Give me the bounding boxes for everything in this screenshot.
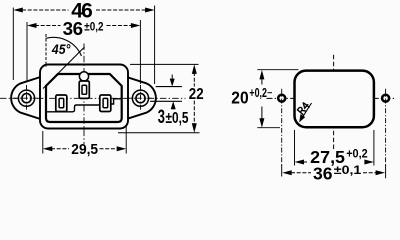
recess floor step line bbox=[47, 105, 100, 112]
45deg construction vertical line bbox=[45, 34, 47, 67]
right panel hole bbox=[382, 95, 389, 102]
recess step line right of N pin bbox=[111, 99, 121, 104]
dimension 20 leader dash bbox=[268, 92, 273, 94]
svg-text:20: 20 bbox=[231, 88, 249, 108]
dimension 3 down arrow bbox=[171, 75, 173, 80]
left panel hole bbox=[278, 95, 285, 102]
dimension 46 extension line right bbox=[154, 6, 156, 85]
svg-text:29,5: 29,5 bbox=[71, 142, 98, 158]
svg-text:22: 22 bbox=[189, 86, 204, 103]
dimension 46 extension line left bbox=[12, 8, 14, 81]
dimension 29,5 left arrow bbox=[43, 146, 53, 151]
R4 leader arrow bbox=[302, 103, 312, 119]
right mounting hole bbox=[136, 94, 145, 103]
flange body outline bbox=[40, 65, 128, 129]
line pin slot bbox=[59, 98, 64, 107]
earth pin body bbox=[79, 81, 89, 98]
left hole crosshair bbox=[13, 85, 40, 112]
dimension 29,5 line bbox=[51, 148, 118, 150]
dimension 3 upper reference line bbox=[156, 86, 182, 88]
horizontal centerline left view bbox=[0, 97, 186, 99]
svg-text:3: 3 bbox=[158, 106, 165, 128]
svg-text:+0,2: +0,2 bbox=[249, 86, 267, 100]
left panel hole vertical extension bbox=[281, 89, 283, 164]
dimension 46 left arrow bbox=[13, 8, 22, 13]
dimension 27,5 right arrow bbox=[364, 160, 374, 165]
dimension 3 lower reference line bbox=[150, 100, 182, 102]
right hole crosshair bbox=[127, 85, 154, 112]
dimension 27,5 left arrow bbox=[295, 160, 305, 165]
vertical centerline left view bbox=[83, 44, 85, 145]
dimension 29,5 extension line left bbox=[42, 131, 44, 154]
dimension 22 line bbox=[193, 72, 195, 126]
left mounting ear bbox=[11, 77, 42, 120]
svg-text:±0,2: ±0,2 bbox=[84, 20, 103, 34]
dimension 20 line bbox=[261, 78, 263, 120]
dimension 20 top arrow bbox=[259, 70, 264, 80]
dimension 20 bottom extension line bbox=[257, 127, 280, 129]
svg-text:±0,1: ±0,1 bbox=[334, 163, 362, 177]
dimension 27,5 extension line right bbox=[373, 130, 375, 166]
dimension 36 extension line left bbox=[26, 22, 28, 82]
right mounting ear bbox=[125, 77, 156, 120]
dimension 22 top extension line bbox=[130, 63, 199, 65]
dimension 36 extension line right bbox=[139, 20, 141, 84]
dimension 22 top arrow bbox=[192, 64, 197, 74]
dimension 20 bottom arrow bbox=[259, 118, 264, 128]
dimension 27,5 extension line left bbox=[294, 130, 296, 166]
right mounting hole outer circle bbox=[132, 90, 148, 106]
dimension 36 left arrow bbox=[27, 23, 37, 28]
svg-text:+0,2: +0,2 bbox=[346, 147, 368, 161]
dimension 46 right arrow bbox=[145, 8, 155, 13]
right panel hole vertical extension bbox=[385, 89, 387, 164]
recess outline with 45deg chamfered top corners bbox=[46, 74, 122, 122]
dimension 36,1 line bbox=[291, 172, 376, 174]
dimension 46 line bbox=[22, 9, 146, 11]
R4 label bbox=[297, 102, 309, 115]
left mounting hole bbox=[22, 94, 31, 103]
dimension 22 bottom extension line bbox=[118, 132, 200, 134]
right view horizontal centerline bbox=[267, 97, 397, 99]
45deg chamfer extension line bbox=[43, 47, 85, 89]
right view vertical centerline bbox=[333, 55, 335, 150]
dimension 29,5 right arrow bbox=[117, 146, 127, 151]
dimension 36,1 left arrow bbox=[282, 170, 292, 175]
dimension 36,1 right arrow bbox=[376, 170, 386, 175]
neutral pin body bbox=[100, 95, 111, 112]
earth pin boss circle bbox=[79, 72, 88, 81]
dimension 20 top extension line bbox=[257, 69, 298, 71]
svg-text:±0,5: ±0,5 bbox=[166, 110, 189, 127]
neutral pin slot bbox=[103, 98, 108, 107]
dimension 36 right arrow bbox=[131, 23, 141, 28]
left mounting hole outer circle bbox=[18, 90, 34, 106]
dimension 27,5 line bbox=[303, 161, 309, 163]
svg-text:45°: 45° bbox=[51, 42, 71, 57]
45deg dimension arc bbox=[46, 37, 82, 56]
dimension 22 bottom arrow bbox=[192, 123, 197, 133]
dimension 29,5 extension line right bbox=[125, 126, 127, 154]
earth pin slot bbox=[82, 85, 87, 94]
dimension 36 line bbox=[35, 25, 132, 27]
panel cutout rounded rectangle bbox=[295, 71, 374, 128]
line pin body bbox=[56, 95, 67, 112]
dimension 3 up arrow bbox=[172, 106, 174, 110]
svg-text:36: 36 bbox=[313, 163, 333, 181]
svg-text:36: 36 bbox=[63, 18, 84, 39]
